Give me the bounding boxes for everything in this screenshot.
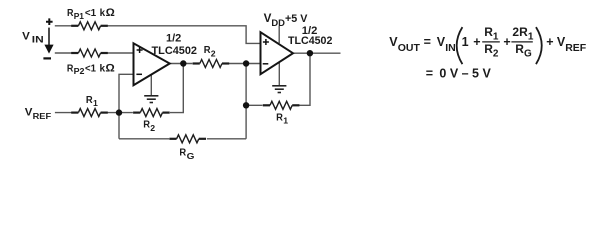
- svg-text:0 V – 5 V: 0 V – 5 V: [439, 67, 491, 81]
- resistor RP1: [71, 22, 108, 30]
- svg-text:R: R: [484, 25, 493, 39]
- resistor R1 (left, VREF): [71, 109, 108, 117]
- svg-text:Ω: Ω: [106, 7, 116, 19]
- svg-text:P1: P1: [74, 11, 84, 21]
- svg-text:R: R: [276, 112, 283, 124]
- label + (V_IN top): [46, 18, 53, 25]
- svg-text:2: 2: [150, 123, 155, 133]
- op-amp U1A triangle: [134, 43, 170, 85]
- wire: A2 ground stem: [278, 63, 280, 86]
- svg-text:P2: P2: [74, 66, 85, 76]
- wire: VREF to R1 left: [55, 112, 72, 114]
- svg-text:+: +: [473, 35, 480, 49]
- svg-text:1: 1: [283, 116, 288, 126]
- svg-text:<1: <1: [85, 62, 96, 74]
- svg-text:<1: <1: [85, 7, 96, 19]
- wire: node B vertical down to RG corner: [245, 64, 247, 139]
- op-amp U1B + input sign: [263, 39, 269, 45]
- wire: RG right to node B vertical: [207, 138, 246, 140]
- wire: RG line left lead: [119, 138, 169, 140]
- node dot: A2 output: [307, 50, 313, 56]
- wire: R1fb left lead from node B vertical: [246, 104, 262, 106]
- svg-text:2: 2: [211, 48, 216, 58]
- svg-text:k: k: [100, 7, 106, 19]
- svg-text:REF: REF: [565, 42, 587, 54]
- node dot: node A: [116, 109, 122, 115]
- wire: bottom stub V_IN- to RP2: [55, 52, 72, 54]
- V_IN arrow: [48, 28, 50, 46]
- svg-text:+: +: [546, 35, 553, 49]
- svg-text:OUT: OUT: [398, 42, 421, 54]
- close paren: [536, 27, 542, 64]
- wire: RP1 to corner, down, into A2 +in: [107, 26, 260, 44]
- wire: RP2 to A1 +in: [107, 52, 133, 54]
- op-amp U1B triangle: [261, 32, 294, 74]
- resistor R2 (between stages): [193, 60, 230, 68]
- svg-text:R: R: [484, 42, 493, 56]
- svg-text:k: k: [100, 62, 106, 74]
- svg-text:G: G: [187, 151, 195, 161]
- svg-text:1: 1: [93, 98, 98, 108]
- label - (V_IN bottom): [43, 57, 51, 59]
- open paren: [457, 27, 463, 64]
- wire: VDD stem: [278, 26, 280, 43]
- svg-text:1/2: 1/2: [166, 33, 181, 45]
- svg-text:2: 2: [493, 49, 499, 60]
- svg-text:G: G: [524, 49, 532, 60]
- wire: R2top to node B and on to A2 -in: [229, 63, 261, 65]
- svg-text:=: =: [426, 67, 433, 81]
- op-amp U1B - input sign: [263, 63, 269, 65]
- svg-text:Ω: Ω: [105, 62, 115, 74]
- wire: A2 output line: [293, 52, 341, 54]
- svg-text:IN: IN: [445, 42, 456, 54]
- op-amp U1A - input sign: [136, 73, 142, 75]
- node dot: A1 output: [180, 60, 186, 66]
- ground (below U1B): [272, 86, 286, 93]
- resistor RG: [169, 135, 206, 143]
- wire: A1 ground stem: [150, 75, 152, 95]
- wire: A1 -in left then down through node A to RG corner: [119, 74, 134, 139]
- svg-text:TLC4502: TLC4502: [288, 35, 332, 47]
- svg-text:V: V: [22, 30, 30, 42]
- svg-text:1: 1: [493, 31, 499, 42]
- wire: R1fb right lead to corner, up to A2 out dot: [299, 53, 310, 105]
- svg-text:R: R: [86, 94, 93, 106]
- svg-text:R: R: [515, 42, 524, 56]
- svg-text:TLC4502: TLC4502: [152, 45, 198, 57]
- svg-text:REF: REF: [33, 111, 52, 121]
- svg-text:+5 V: +5 V: [285, 13, 308, 25]
- svg-text:R: R: [179, 146, 186, 158]
- resistor R1 (A2 feedback): [263, 101, 300, 109]
- svg-text:1: 1: [528, 31, 534, 42]
- svg-text:+: +: [503, 35, 510, 49]
- wire: R1 to node A and on to R2fb: [107, 112, 132, 114]
- resistor R2 (A1 feedback): [133, 109, 170, 117]
- wire: R2fb right lead to corner, up to A1 out dot: [170, 64, 183, 113]
- svg-text:IN: IN: [32, 34, 44, 45]
- svg-text:2R: 2R: [512, 25, 528, 39]
- node dot: node B (A2 -in): [243, 60, 249, 66]
- svg-text:1: 1: [462, 35, 469, 49]
- svg-text:=: =: [424, 35, 431, 49]
- ground (below U1A): [144, 96, 158, 103]
- wire: A1 out to R2top: [170, 63, 193, 65]
- op-amp U1A + input sign: [137, 47, 143, 53]
- resistor RP2: [71, 49, 108, 57]
- wire: top line from V_IN+ to RP1: [55, 25, 72, 27]
- node dot: R1fb junction: [243, 102, 249, 108]
- svg-text:DD: DD: [271, 18, 285, 29]
